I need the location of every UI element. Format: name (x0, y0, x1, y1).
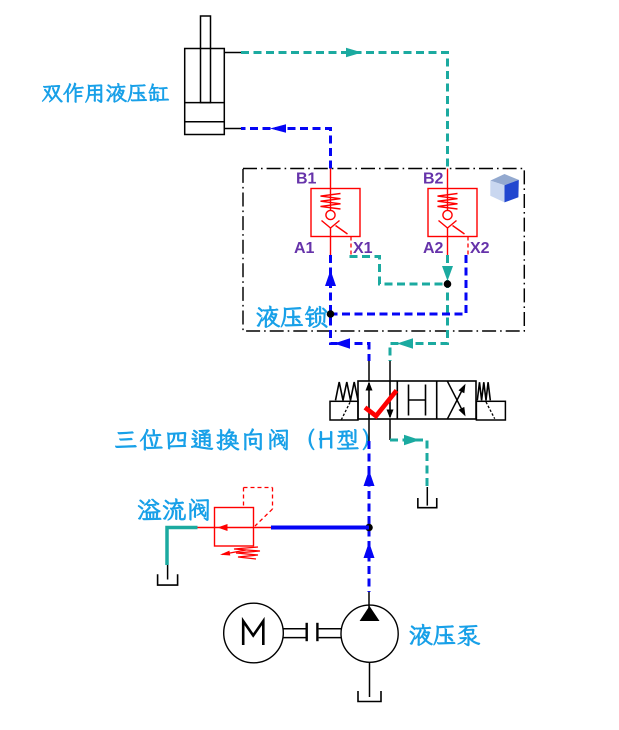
flow arrow up on P line (lower) (364, 542, 375, 558)
right return spring (477, 382, 490, 400)
svg-text:X1: X1 (353, 240, 373, 257)
position 3: crossed arrows (447, 388, 463, 420)
svg-text:X2: X2 (470, 240, 490, 257)
flow arrow right on T line (404, 435, 420, 446)
wire: blue pilot line from X2 (333, 255, 466, 314)
label 液压锁 (257, 306, 328, 328)
wire: relief valve to tank (teal) (167, 528, 198, 566)
junction node X2-pilot / A1 line (327, 310, 335, 318)
flow arrow up on P line (upper) (364, 470, 375, 486)
pump triangle (output up) (360, 606, 380, 621)
label 三位四通换向阀（H型） (115, 429, 368, 451)
relief valve square (215, 508, 254, 547)
position 1: straight arrows P-A, B-T (368, 383, 370, 419)
cylinder top port stub (224, 52, 241, 54)
label 双作用液压缸 (42, 83, 169, 103)
directional valve body (3 positions) (358, 381, 476, 419)
flow arrow right on teal supply (346, 48, 362, 58)
flow arrow up on A1 line (325, 270, 336, 286)
wire: thick blue pump line to relief valve (271, 526, 369, 530)
relief valve internal arrow (218, 524, 228, 531)
flow arrow left on blue near valve (334, 338, 350, 349)
left solenoid box (330, 401, 358, 420)
svg-text:A1: A1 (294, 240, 315, 257)
3D cube icon (490, 174, 519, 202)
coupling shaft (284, 628, 306, 630)
relief valve adjust arrow (222, 550, 246, 555)
junction node P / relief valve (365, 524, 373, 532)
relief valve flow line (198, 527, 272, 529)
svg-text:B2: B2 (423, 171, 444, 188)
flow arrow down on A2 line (442, 266, 453, 281)
flow arrow left on teal near valve (397, 338, 413, 349)
wire: teal supply line to cylinder rod side (241, 53, 448, 169)
label 溢流阀 (138, 499, 209, 521)
position 2 (H-type centre) (408, 385, 410, 416)
relief valve pilot line (dashed) (243, 488, 245, 508)
wire: T port to tank (389, 419, 391, 440)
wire: blue line from A1 down to valve port A (331, 255, 370, 361)
check valve 1 (B1/A1/X1) (311, 189, 360, 237)
svg-text:B1: B1 (296, 171, 317, 188)
electric motor circle (224, 603, 284, 663)
double-acting cylinder body (185, 49, 225, 135)
tank (pump suction) (358, 691, 381, 702)
relief valve spring (234, 547, 260, 559)
pump suction to tank (369, 662, 371, 697)
tank (T return) (426, 487, 428, 506)
wire: teal line from A2 down to valve port B (390, 255, 448, 361)
wire: teal pilot line from X1 (351, 255, 445, 284)
label 液压泵 (410, 624, 480, 646)
cylinder piston rod (201, 16, 211, 103)
wire: blue return line from cylinder cap side (241, 129, 331, 169)
right solenoid box (476, 401, 505, 420)
junction node X1-pilot / A2 line (444, 280, 452, 288)
hydraulic pump circle (341, 605, 398, 662)
flow arrow left on blue return (270, 124, 286, 133)
svg-text:A2: A2 (423, 240, 444, 257)
hydraulic lock enclosure (dash-dot box) (243, 169, 524, 332)
cylinder piston (185, 102, 225, 104)
red check mark (active position) (365, 391, 397, 417)
cylinder bottom port stub (224, 128, 241, 130)
left return spring (336, 382, 359, 400)
tank (relief return) (167, 565, 169, 580)
letter M (243, 621, 263, 645)
check valve 2 (B2/A2/X2) (428, 189, 477, 237)
wire: P port down to pump (368, 419, 370, 441)
